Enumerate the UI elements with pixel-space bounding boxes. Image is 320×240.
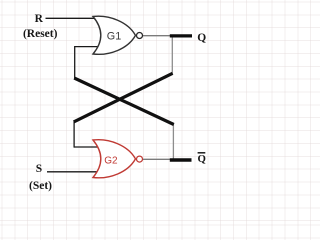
svg-text:(Set): (Set)	[29, 180, 52, 192]
G1 output bubble	[137, 33, 143, 39]
wire right vertical upper (Q feedback tap)	[171, 36, 173, 74]
wire R input	[46, 17, 100, 19]
NOR gate G1	[93, 16, 136, 54]
wire G2 output to Qbar junction	[143, 158, 171, 160]
wire Q output thick segment	[170, 34, 192, 37]
svg-text:Q: Q	[197, 32, 206, 44]
wire left vertical lower	[73, 122, 75, 148]
Qbar overline	[198, 152, 206, 154]
svg-text:G1: G1	[107, 30, 121, 42]
wire G2 upper input (feedback)	[74, 146, 100, 148]
wire cross diagonal B (right-top to left-bottom)	[74, 73, 173, 122]
NOR gate G2	[93, 140, 136, 178]
wire left vertical upper	[74, 46, 76, 78]
wire cross diagonal A (left-top to right-bottom)	[74, 78, 174, 125]
svg-text:Q: Q	[198, 153, 206, 165]
wire right vertical lower (Qbar feedback tap)	[172, 124, 174, 160]
svg-text:R: R	[35, 13, 44, 25]
wire G1 output to Q junction	[143, 35, 171, 37]
wire G1 lower input (feedback)	[75, 46, 100, 48]
svg-text:(Reset): (Reset)	[23, 28, 58, 40]
G2 output bubble	[137, 156, 143, 162]
wire S input	[47, 171, 99, 173]
svg-text:S: S	[36, 163, 42, 175]
svg-text:G2: G2	[104, 155, 118, 166]
wire Qbar output thick segment	[170, 158, 192, 161]
